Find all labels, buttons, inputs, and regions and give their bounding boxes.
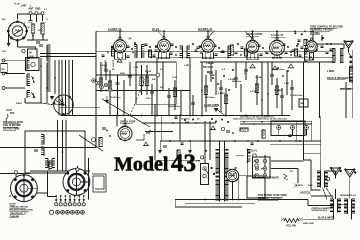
capacitor band 6 (153, 55, 156, 57)
svg-text:33,000 Ohm: 33,000 Ohm (168, 106, 180, 108)
value label 2 (120, 73, 126, 75)
SP2 inner V (332, 168, 338, 173)
tone pot (221, 127, 225, 131)
svg-text:R.F.: R.F. (2, 19, 6, 21)
wire (239, 175, 247, 177)
wire right edge 2 (345, 82, 347, 118)
svg-text:3 MEG: 3 MEG (218, 93, 225, 95)
resistor rstring 0 (204, 86, 207, 95)
label junction box (300, 102, 305, 105)
svg-text:1 MF: 1 MF (184, 65, 190, 67)
svg-text:0.5: 0.5 (222, 69, 226, 71)
junction (278, 57, 280, 59)
label MFD (327, 70, 335, 73)
junction band (200, 52, 202, 54)
resistor y141 (262, 130, 265, 138)
V7 pin leads (310, 52, 314, 61)
tube socket U (203, 53, 214, 59)
note line2 (10, 209, 34, 212)
label above V4 (198, 28, 213, 31)
wire (340, 87, 353, 89)
svg-text:CHASSIS.: CHASSIS. (10, 215, 21, 218)
wire (238, 174, 240, 200)
wire component string (146, 65, 148, 95)
label ohms (29, 56, 34, 58)
lc arrow (31, 92, 35, 98)
label 80 pos (235, 168, 238, 170)
speaker transformer T5 secondary (338, 199, 341, 213)
bus junction (116, 115, 118, 117)
wire mid bus (61, 115, 291, 117)
junction (180, 115, 182, 117)
circled terminal 4 (108, 88, 112, 92)
junction (46, 87, 48, 89)
label above V2 (108, 28, 122, 31)
wire component string (100, 62, 102, 92)
top bus junction (304, 30, 306, 32)
wire (17, 40, 19, 47)
junction y141 (279, 140, 281, 142)
speaker horn SP2 (331, 168, 341, 179)
capacitor string 3 (116, 83, 120, 85)
junction (254, 160, 256, 162)
wire x161 (160, 116, 162, 141)
speaker horn SP1 (tweeter) (344, 41, 353, 51)
wire (240, 121, 312, 123)
tube pin leads (250, 53, 254, 58)
wire T5-T6 (339, 203, 346, 205)
wire (154, 141, 156, 160)
capacitor band2 10 (214, 45, 217, 46)
tube V8 oscillator lower (118, 124, 132, 142)
capacitor rstring 11 (280, 96, 284, 98)
junction (161, 57, 163, 59)
label 2 (24, 23, 26, 25)
stator terminal G3 (76, 168, 79, 171)
det cluster dot (228, 89, 230, 91)
terminal (2, 87, 5, 90)
capacitor C1 (29, 21, 33, 23)
junction (243, 121, 245, 123)
wire (18, 13, 45, 15)
capacitor band2 21 (292, 50, 295, 51)
svg-text:ANT: ANT (29, 8, 34, 11)
bus junction (267, 115, 269, 117)
junction (261, 99, 263, 101)
junction (172, 122, 174, 124)
resistor R30 (177, 150, 180, 159)
svg-text:FIELD & SPEAKER: FIELD & SPEAKER (327, 77, 349, 80)
junction band (132, 51, 134, 53)
capacitor C3 (39, 45, 43, 47)
wire gang bundle (58, 60, 60, 116)
value label 4 (145, 71, 151, 73)
junction (219, 199, 221, 201)
chassis mark under V8 (143, 142, 149, 146)
junction band (158, 51, 160, 53)
label 2 mfd (296, 185, 304, 187)
junction (209, 57, 211, 59)
br label b (308, 185, 313, 187)
resistor band 5 (149, 50, 152, 57)
value label 9 (210, 75, 216, 77)
svg-text:1450 OHM: 1450 OHM (303, 222, 314, 225)
det cluster dot (223, 75, 225, 77)
wire component string (180, 90, 182, 116)
svg-text:25 M Ohm: 25 M Ohm (110, 97, 121, 99)
chassis mark A4 (117, 59, 123, 63)
junction band (290, 54, 292, 56)
SP3 dots (344, 168, 355, 170)
wire vertical right (319, 62, 321, 118)
tl label b (30, 6, 32, 8)
capacitor band2 9 (197, 47, 200, 48)
label 500 ohm (203, 67, 213, 69)
note osc line2 (3, 125, 21, 127)
label left box (1, 69, 4, 71)
wire (252, 31, 254, 38)
svg-text:600 Ohm: 600 Ohm (232, 81, 241, 83)
top bus junction (252, 30, 254, 32)
label 110V (251, 151, 258, 153)
tr blob (301, 33, 303, 35)
tube pin leads (118, 52, 122, 58)
vtext 220 (104, 60, 106, 71)
ground y150 (188, 150, 192, 154)
junction on bus (141, 90, 143, 92)
chassis mark A1 (249, 64, 255, 68)
junction band2 (237, 43, 239, 45)
bus junction (156, 115, 158, 117)
voice coil X1 (307, 191, 311, 195)
svg-text:220 Ohms: 220 Ohms (104, 60, 106, 71)
osc box outline (25, 131, 85, 173)
squiggle (6, 114, 8, 122)
chassis mark under V7 (308, 57, 314, 61)
junction band (220, 51, 222, 53)
terminal (41, 12, 44, 15)
wire component string (205, 75, 207, 112)
svg-text:2: 2 (24, 23, 26, 25)
wire (7, 30, 9, 32)
tube V3 IF amp (158, 36, 171, 53)
junction (267, 93, 269, 95)
junction (274, 57, 276, 59)
ground y150b (158, 150, 162, 154)
wire (174, 200, 176, 208)
resistor rstring 10 (275, 86, 278, 95)
capacitor tr2 (298, 40, 301, 42)
bus junction (261, 115, 263, 117)
coil L2 (27, 59, 30, 70)
ant coupling coil a (45, 159, 48, 168)
note arrow (321, 38, 323, 41)
res row label2 (270, 117, 287, 120)
X terminal (294, 184, 298, 188)
HV winding (248, 150, 251, 163)
capacitor y141 c (289, 135, 292, 137)
junction (165, 57, 167, 59)
wire (236, 155, 244, 157)
label blue white (318, 217, 335, 219)
junction (247, 140, 249, 142)
wire component string (174, 80, 176, 110)
junction (261, 168, 263, 170)
wire component string (220, 80, 222, 112)
capacitor band2 18 (266, 52, 269, 53)
label speaker (267, 177, 279, 180)
label 700 (38, 30, 42, 32)
svg-text:0.5 MF: 0.5 MF (228, 79, 235, 81)
blob (221, 119, 223, 121)
wire component string (276, 78, 278, 108)
det cluster dot (207, 71, 209, 73)
wire (349, 52, 351, 57)
capacitor band 22 (299, 55, 302, 57)
value label 15 (284, 83, 290, 85)
label U.S.P. (6, 110, 12, 112)
note line3 (10, 213, 27, 215)
svg-text:3500: 3500 (120, 73, 126, 75)
svg-text:.5: .5 (46, 19, 49, 21)
board row label (240, 116, 275, 119)
junction (238, 199, 240, 201)
wire y107 (60, 106, 100, 108)
resistor R1 (31, 24, 34, 33)
capacitor band2 3 (145, 44, 148, 45)
svg-text:1 MF: 1 MF (284, 83, 290, 85)
wire (62, 120, 64, 171)
junction (211, 167, 213, 169)
tr blob (290, 51, 292, 53)
junction (232, 132, 234, 134)
capacitor C30 (163, 146, 167, 148)
wire vertical (267, 62, 269, 116)
tuning arrow (32, 76, 35, 83)
wire mid horizontal (160, 140, 321, 142)
wire right edge (352, 50, 354, 118)
junction (109, 115, 111, 117)
capacitor band2 25 (321, 46, 324, 47)
resistor rstring 8 (255, 84, 258, 93)
wire (96, 90, 190, 92)
switch feed terminal (201, 156, 204, 159)
junction band2 (262, 47, 264, 49)
junction (295, 140, 297, 142)
tube V4 2nd detector (202, 36, 215, 53)
wire (47, 171, 49, 197)
value label 8 (184, 65, 190, 67)
field X right (299, 218, 303, 222)
wire board b (271, 168, 298, 170)
svg-text:OSCILLATOR: OSCILLATOR (120, 121, 136, 124)
capacitor string 1 (104, 70, 108, 72)
wire y123 (142, 122, 216, 124)
speaker transformer T6 primary (344, 199, 347, 214)
wire component string (281, 88, 283, 116)
wire (30, 15, 32, 20)
tube socket U (247, 54, 258, 60)
capacitor string 10 (167, 96, 171, 98)
wire (65, 120, 67, 171)
wire bottom (175, 199, 265, 201)
board2 terminal 5 (263, 174, 266, 177)
junction on bus (123, 90, 125, 92)
field coil resistor (284, 219, 299, 223)
junction (312, 30, 314, 32)
output transformer T4 secondary (325, 171, 328, 188)
wire (54, 60, 56, 94)
osc coil A (41, 135, 44, 145)
terminal strip B pin 4 (71, 210, 75, 214)
tr blob (296, 45, 298, 47)
coil L3a (27, 74, 30, 86)
wire board a (271, 160, 304, 162)
board2 terminal 4 (255, 174, 258, 177)
svg-text:RELATES RESISTORS: RELATES RESISTORS (10, 209, 34, 212)
junction (168, 115, 170, 117)
grid leak spiral (92, 174, 106, 192)
wire component string (109, 70, 111, 116)
junction (54, 77, 56, 79)
wire component string (235, 62, 237, 88)
capacitor C20 (102, 128, 106, 130)
wire diag det (215, 108, 225, 116)
wire (264, 155, 266, 200)
wire component string (168, 88, 170, 116)
wire (307, 200, 309, 206)
junction box right (299, 99, 308, 107)
junction (123, 115, 125, 117)
stator terminal G2 (14, 171, 17, 174)
output transformer T3 secondary (340, 49, 343, 63)
note surge line1 (258, 195, 287, 197)
wire bus2 (200, 61, 333, 63)
wire (335, 171, 337, 179)
wire vertical (261, 62, 263, 116)
switch lever (205, 169, 209, 175)
note line0 (10, 204, 17, 206)
svg-text:GND: GND (35, 8, 41, 11)
wire (219, 141, 221, 150)
wire bottom-left (30, 170, 90, 172)
svg-text:110 V.: 110 V. (251, 151, 258, 153)
tube V2 1st detector (114, 37, 127, 54)
capacitor mid1 (175, 117, 178, 119)
dot lc2 (32, 93, 34, 95)
wire (42, 15, 44, 21)
junction (42, 35, 44, 37)
junction (261, 121, 263, 123)
capacitor band2 5 (155, 50, 158, 51)
junction (253, 123, 255, 125)
board2 terminal 2 (255, 167, 258, 170)
SP3 corner dot (354, 171, 356, 173)
blob (187, 122, 189, 124)
terminal K (22, 49, 25, 52)
wire diagonal B (79, 135, 103, 151)
V6 pin dots below (272, 57, 282, 59)
IF transformer T1 secondary (142, 45, 145, 59)
wire B+ top bus (96, 30, 313, 32)
wire T4-T5 diag2 (323, 188, 328, 200)
blob (211, 118, 213, 120)
V4 cap lead (208, 31, 215, 38)
bus junction (95, 115, 97, 117)
osc coupling comb (305, 49, 308, 62)
wire component string (271, 62, 273, 85)
junction (204, 199, 206, 201)
svg-text:10,000 OHMS: 10,000 OHMS (204, 104, 220, 107)
resistor string 7 (145, 77, 148, 86)
capacitor band 14 (235, 52, 238, 54)
wire component string (291, 80, 293, 110)
wire (46, 91, 48, 103)
label half meg (274, 90, 284, 92)
junction (252, 30, 254, 32)
wire component string (123, 80, 125, 116)
resistor string 2 (108, 81, 111, 90)
blob v6a (277, 67, 279, 69)
note osc line3 (3, 128, 19, 130)
junction band2 (326, 43, 328, 45)
wire vertical (201, 62, 203, 116)
rectifier tube V9 (226, 169, 238, 183)
wire (24, 98, 26, 103)
label green white (312, 209, 331, 211)
junction band2 (192, 43, 194, 45)
junction (151, 115, 153, 117)
wire (159, 141, 161, 150)
junction band2 (134, 42, 136, 44)
det cluster dot (217, 83, 219, 85)
capacitor band 3 (127, 56, 130, 58)
tuning condenser G1 (53, 95, 74, 116)
svg-text:(4 TUBE): (4 TUBE) (310, 32, 320, 35)
wire (224, 198, 226, 200)
choke box (247, 176, 265, 198)
junction band2 (175, 46, 177, 48)
wire (349, 180, 351, 199)
junction band (107, 51, 109, 53)
wire gang bundle (68, 60, 70, 116)
terminal (2, 72, 5, 75)
tl label f (2, 51, 7, 53)
svg-text:0.25 MF: 0.25 MF (206, 63, 215, 65)
wire (4, 60, 26, 62)
wire bottom 3 (185, 202, 255, 204)
wire (163, 31, 165, 37)
junction (109, 135, 111, 137)
SP1 lead dot b (349, 61, 352, 64)
wire (179, 116, 181, 142)
note surge line2 (258, 197, 282, 200)
wire (351, 214, 353, 219)
capacitor band2 12 (222, 51, 225, 52)
wire (57, 120, 59, 171)
tr blob (330, 43, 332, 45)
blob v6b (282, 75, 284, 77)
wire (15, 174, 17, 177)
top bus junction (119, 30, 121, 32)
svg-text:0.1: 0.1 (44, 9, 48, 11)
wire to switch (204, 121, 206, 164)
wire gang bundle (72, 60, 74, 116)
wire (295, 122, 297, 141)
wire heater line (96, 51, 333, 53)
label above V6 (271, 34, 285, 37)
power terminal board (253, 157, 271, 178)
